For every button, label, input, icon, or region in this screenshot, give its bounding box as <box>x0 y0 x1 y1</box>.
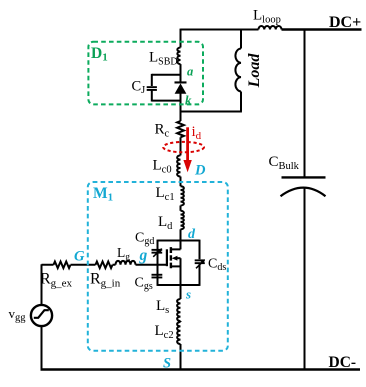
inductor Lc0 <box>177 155 180 176</box>
wire LSBD to diode <box>180 64 182 82</box>
svg-text:id: id <box>192 124 202 142</box>
mosfet Q1 body stub <box>175 257 181 259</box>
mosfet Q1 source stub <box>171 265 181 267</box>
wire mosfet loop top edge <box>158 240 200 242</box>
svg-text:Cgs: Cgs <box>135 276 153 293</box>
svg-text:D1: D1 <box>91 45 108 64</box>
svg-text:Ls: Ls <box>156 298 169 316</box>
svg-text:vgg: vgg <box>9 306 27 324</box>
wire CBulk branch top <box>304 29 306 178</box>
svg-text:DC+: DC+ <box>329 14 361 31</box>
wire CJ loop bottom <box>152 100 181 102</box>
wire source lead down to Ls <box>180 258 182 299</box>
wire mosfet loop right edge <box>199 240 201 286</box>
inductor Lg <box>116 261 136 265</box>
wire DC- bottom rail <box>41 368 361 370</box>
svg-text:Lg: Lg <box>117 245 130 263</box>
svg-text:M1: M1 <box>93 185 113 204</box>
wire gate run vgg corner to gate bar <box>42 264 167 266</box>
svg-text:g: g <box>139 247 148 264</box>
svg-text:Lc2: Lc2 <box>155 323 174 341</box>
svg-text:Rg_ex: Rg_ex <box>40 271 73 290</box>
inductor Load coil <box>235 49 241 92</box>
capacitor Cds arrow <box>196 262 202 268</box>
box M1 dashed <box>88 182 228 351</box>
svg-text:Lloop: Lloop <box>253 8 281 26</box>
inductor Ls <box>177 299 180 321</box>
wire vgg top lead <box>41 264 43 305</box>
current arrow id head <box>183 160 191 172</box>
svg-text:Cgd: Cgd <box>135 231 154 248</box>
svg-text:G: G <box>74 249 85 265</box>
mosfet Q1 drain stub and lead <box>171 240 181 250</box>
svg-text:Lc1: Lc1 <box>156 185 175 203</box>
inductor Ld <box>181 211 184 229</box>
svg-text:s: s <box>185 287 191 302</box>
svg-text:a: a <box>187 64 193 78</box>
wire diode to load junction <box>180 94 182 122</box>
wire CJ loop top <box>152 74 181 76</box>
svg-text:DC-: DC- <box>329 354 357 371</box>
capacitor CJ plates <box>147 86 157 88</box>
capacitor CBulk curved plate <box>281 188 326 197</box>
svg-text:S: S <box>163 355 171 371</box>
wire node S to DC- <box>180 344 182 370</box>
wire node d to mosfet box <box>180 229 182 240</box>
box D1 dashed <box>88 42 203 105</box>
svg-text:Ld: Ld <box>158 214 173 232</box>
wire CJ left branch <box>151 74 153 102</box>
current arrow id shaft <box>186 127 189 161</box>
inductor Lloop <box>259 26 282 30</box>
diode D1 cathode bar <box>175 81 187 83</box>
resistor Rg_ex <box>54 262 71 269</box>
svg-text:d: d <box>188 227 196 242</box>
wire load branch top <box>240 29 242 49</box>
svg-text:k: k <box>185 93 192 108</box>
svg-text:LSBD: LSBD <box>149 50 178 68</box>
svg-text:Rg_in: Rg_in <box>90 271 121 290</box>
capacitor Cgd arrow <box>153 251 159 257</box>
capacitor Cgs plates <box>152 274 163 276</box>
source vgg step symbol <box>34 310 49 318</box>
source vgg circle <box>31 305 52 326</box>
wire mosfet loop bottom edge <box>158 284 200 286</box>
capacitor Cgd plates <box>152 249 163 251</box>
svg-text:CJ: CJ <box>132 79 146 97</box>
svg-text:D: D <box>194 163 206 179</box>
capacitor CBulk top plate <box>282 176 326 178</box>
wire main column top <box>180 29 182 48</box>
diode D1 triangle <box>175 83 187 93</box>
inductor Lc2 <box>177 322 180 344</box>
wire DC+ top rail left segment <box>181 29 259 31</box>
resistor Rg_in <box>96 262 113 269</box>
resistor Rc <box>177 121 184 137</box>
wire CBulk branch bottom <box>304 188 306 370</box>
svg-text:Rc: Rc <box>155 122 170 140</box>
inductor Lc1 <box>181 186 184 205</box>
wire DC+ top rail right segment <box>282 28 362 30</box>
wire load branch bottom <box>181 92 242 112</box>
current loop ellipse id <box>163 142 204 152</box>
svg-text:Cds: Cds <box>208 257 226 274</box>
wire Rc to Lc0 <box>180 137 182 155</box>
wire Lc1 to Ld <box>180 206 182 211</box>
svg-text:Load: Load <box>246 53 263 89</box>
capacitor Cds plates <box>195 259 205 261</box>
mosfet Q1 gate bar <box>166 249 168 266</box>
wire Ls to Lc2 <box>180 321 182 322</box>
svg-text:Lc0: Lc0 <box>153 157 172 175</box>
svg-text:CBulk: CBulk <box>269 154 300 172</box>
wire node D segment <box>180 177 182 187</box>
inductor LSBD <box>177 48 180 65</box>
mosfet Q1 channel bar segments <box>170 247 172 268</box>
mosfet Q1 body arrow head <box>172 256 178 261</box>
wire vgg bottom lead <box>41 326 43 370</box>
wire mosfet loop left edge <box>157 240 159 286</box>
